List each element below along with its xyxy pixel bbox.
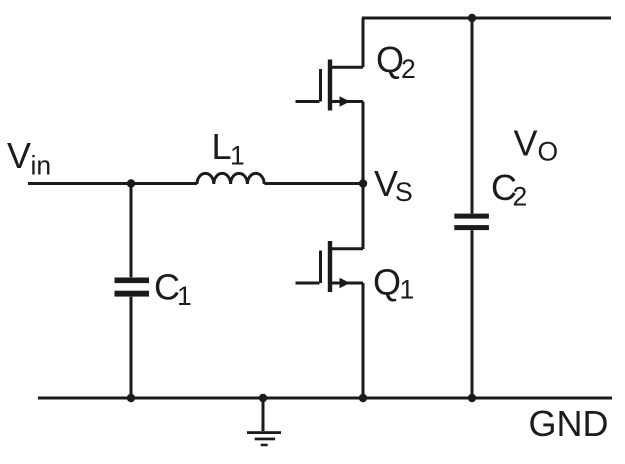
svg-text:GND: GND xyxy=(529,403,609,444)
svg-text:2: 2 xyxy=(401,54,416,84)
svg-text:in: in xyxy=(31,151,52,181)
svg-text:V: V xyxy=(514,123,538,164)
svg-text:O: O xyxy=(538,137,559,167)
svg-text:1: 1 xyxy=(177,281,192,311)
svg-text:Q: Q xyxy=(376,39,404,80)
svg-text:Q: Q xyxy=(373,262,401,303)
svg-text:1: 1 xyxy=(400,275,415,305)
svg-text:1: 1 xyxy=(230,141,245,171)
svg-text:S: S xyxy=(395,177,413,207)
svg-text:V: V xyxy=(7,135,31,176)
svg-text:L: L xyxy=(212,126,232,167)
svg-text:2: 2 xyxy=(513,182,528,212)
